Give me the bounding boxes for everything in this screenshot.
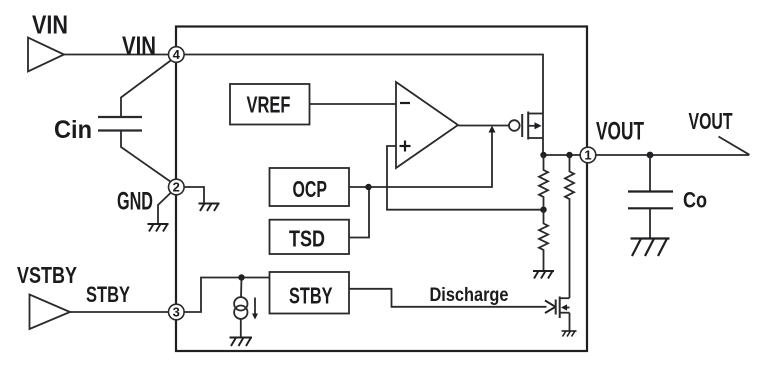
pin 3 STBY [169,304,185,320]
transistor Q2 NMOS discharge [556,297,570,319]
ground symbol (internal, at pin 2) [199,204,220,212]
wire pin 3 to STBY block [183,278,270,313]
resistor R1 upper feedback [539,155,548,210]
node junction OCP/TSD [365,184,371,190]
svg-text:1: 1 [584,148,591,163]
capacitor Cin [98,117,142,131]
wire VOUT end diagonal [719,137,750,155]
svg-text:Cin: Cin [54,116,92,144]
wire feedback to non-inverting input [387,146,544,210]
wire OCP/TSD to gate-drive arrow [369,131,493,187]
svg-text:4: 4 [173,47,181,62]
op-amp plus sign [400,141,411,152]
svg-text:GND: GND [117,188,153,216]
wire NMOS source to ground [569,313,571,331]
svg-text:Discharge: Discharge [430,285,509,306]
ground symbol (discharge NMOS) [562,331,577,337]
wire pin 4 to internal VIN rail [183,55,543,114]
svg-text:2: 2 [173,180,180,195]
svg-text:OCP: OCP [293,176,328,202]
svg-text:STBY: STBY [289,283,333,309]
block OCP [270,168,350,206]
wire current source to ground [240,319,242,338]
pin 1 VOUT [580,147,596,163]
block VREF [230,84,310,125]
pin 2 GND [169,179,185,195]
node feedback tap [540,207,546,213]
ground symbol (current source) [230,338,253,347]
wire STBY to discharge gate [349,289,547,307]
wire Co to ground [649,208,651,239]
current source I1 [234,297,255,319]
node output left [540,152,546,158]
wire VSTBY buffer to pin 3 [70,311,170,313]
IC boundary rectangle [176,27,587,352]
svg-text:VIN: VIN [122,31,156,61]
svg-text:VIN: VIN [32,10,68,40]
wire Cin bottom diagonal to pin 2 [121,131,171,183]
svg-text:VOUT: VOUT [689,108,733,134]
capacitor Co [628,192,673,209]
svg-text:VOUT: VOUT [596,118,644,146]
wire op-amp output to PMOS gate [458,125,509,127]
svg-text:VREF: VREF [247,92,291,118]
block TSD [270,220,350,254]
node junction at current source [238,274,244,280]
wire pin 2 to external ground [158,193,171,225]
svg-text:3: 3 [173,305,180,320]
arrowhead into discharge gate [545,301,556,314]
ground symbol (Co, large) [631,239,670,257]
wire VIN buffer to pin 4 [64,54,170,56]
svg-text:STBY: STBY [86,282,130,307]
input buffer triangle VSTBY [30,295,71,330]
wire pin 2 to internal ground [183,187,204,204]
svg-text:VSTBY: VSTBY [17,262,77,288]
block STBY [270,272,350,314]
svg-text:TSD: TSD [289,226,325,252]
node Co junction [647,152,654,159]
resistor R2 lower feedback [539,210,548,271]
wire VREF to op-amp inverting input [310,103,397,105]
wire Co junction to capacitor [649,155,651,191]
wire junction to current source [240,278,243,298]
wire OCP output [349,186,369,188]
transistor Q1 PMOS pass device [509,112,543,140]
input buffer triangle VIN [28,38,64,72]
pin 4 VIN [169,47,185,63]
wire output rail VOUT [543,154,749,156]
ground symbol (external, at GND) [148,224,169,232]
wire pin 4 diagonal to Cin top [121,60,172,118]
wire PMOS drain to output node [542,138,544,155]
svg-text:Co: Co [683,188,707,213]
wire TSD output riser [349,187,369,238]
ground symbol (feedback divider) [533,271,554,279]
op-amp U1 error amplifier [396,82,458,168]
node output right [566,152,572,158]
op-amp minus sign [400,102,410,104]
resistor R3 discharge path [565,155,574,298]
